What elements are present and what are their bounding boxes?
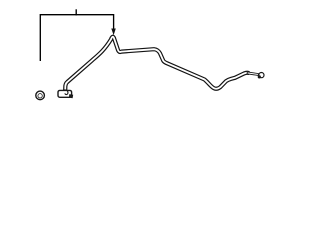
- flange inner curl: [63, 90, 68, 95]
- pipe bore highlight: [65, 37, 248, 92]
- pipe outer stroke: [65, 37, 248, 92]
- flange fitting F1: [58, 90, 72, 97]
- arrowhead: [111, 29, 116, 36]
- bracket tick: [75, 9, 77, 15]
- callout bracket: [40, 15, 113, 61]
- eyelet nut: [258, 75, 261, 78]
- eyelet ring: [259, 73, 264, 78]
- o-ring inner: [38, 94, 42, 98]
- pipe tail to eyelet: [248, 73, 259, 75]
- flange tab: [69, 94, 73, 98]
- o-ring outer: [36, 91, 45, 100]
